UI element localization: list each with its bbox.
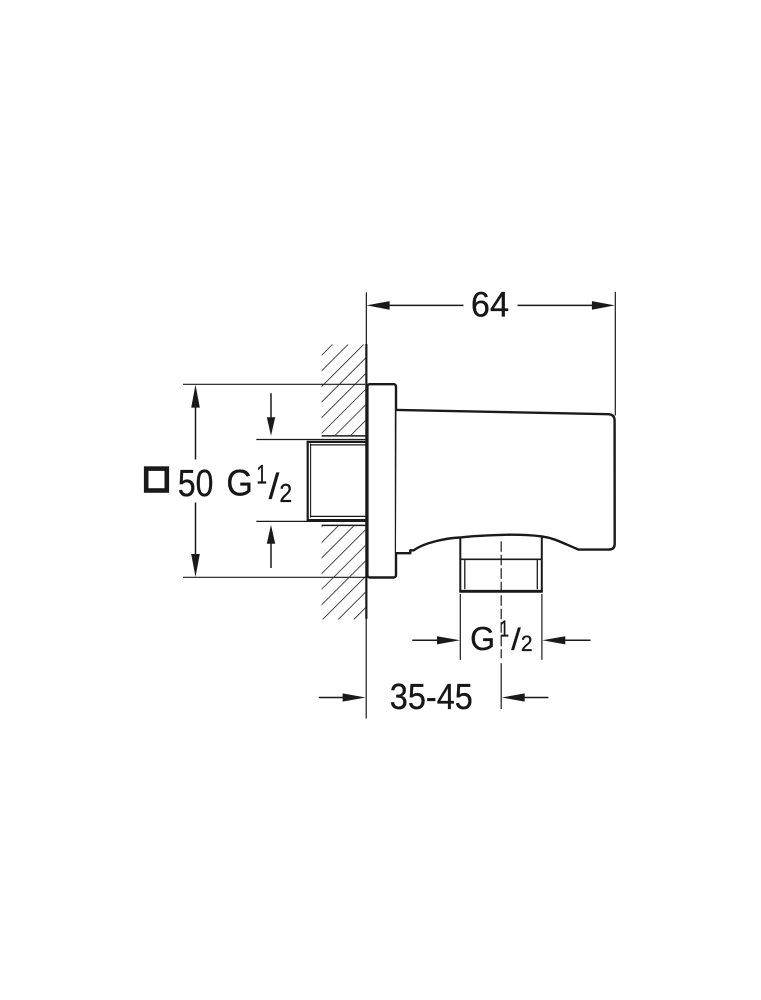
inlet OD arrow upper shaft bbox=[270, 393, 272, 419]
outlet thread root right bbox=[536, 559, 538, 589]
inlet pipe thread root bottom bbox=[310, 515, 366, 517]
dim G1/2 outlet extension right bbox=[541, 594, 543, 660]
svg-text:2: 2 bbox=[279, 480, 292, 508]
wall hatching upper band bbox=[322, 345, 366, 436]
svg-text:1: 1 bbox=[256, 459, 267, 489]
outlet thread shoulder bbox=[460, 558, 542, 560]
flange bbox=[367, 384, 396, 577]
dim 35-45 line left bbox=[319, 697, 344, 699]
inlet OD arrow lower head bbox=[267, 525, 275, 544]
dim G1/2 outlet line left bbox=[412, 639, 438, 641]
dim 35-45 arrowhead right bbox=[502, 693, 525, 701]
wall face line bbox=[365, 344, 367, 619]
dim 50 line lower segment bbox=[195, 503, 197, 556]
svg-text:2: 2 bbox=[521, 630, 533, 656]
dim 64 line right segment bbox=[518, 304, 594, 306]
dim G1/2 outlet arrowhead left bbox=[437, 636, 460, 644]
svg-text:G: G bbox=[470, 620, 495, 657]
dim 50 extension line bottom bbox=[183, 576, 366, 578]
svg-text:64: 64 bbox=[471, 286, 509, 324]
wall hole top edge bbox=[322, 435, 367, 437]
outlet pipe left edge bbox=[459, 537, 461, 592]
inlet pipe thread extension line bottom bbox=[256, 520, 366, 522]
dim 64 arrowhead right bbox=[592, 301, 615, 310]
svg-text:1: 1 bbox=[500, 616, 509, 642]
inlet pipe end cap bbox=[307, 441, 309, 521]
outlet thread root left bbox=[464, 559, 466, 589]
wall hatching lower band bbox=[322, 526, 366, 619]
dim G1/2 outlet arrowhead right bbox=[542, 636, 565, 644]
dim 64 extension line left bbox=[365, 292, 367, 344]
dim 64 line left segment bbox=[388, 304, 464, 306]
dim 50 line upper segment bbox=[195, 406, 197, 460]
inlet pipe thread runout bbox=[310, 444, 312, 518]
svg-text:/: / bbox=[269, 465, 280, 506]
centerline dashed bbox=[500, 541, 502, 658]
dim 50 arrowhead top bbox=[191, 385, 200, 408]
dim 35-45 wall extension bbox=[365, 619, 367, 719]
outlet pipe bottom bbox=[459, 590, 543, 593]
svg-text:50: 50 bbox=[178, 462, 214, 504]
inlet OD arrow upper head bbox=[267, 417, 275, 436]
outlet pipe right edge bbox=[541, 536, 543, 592]
inlet pipe thread root top bbox=[310, 444, 366, 446]
dim 50 arrowhead bottom bbox=[191, 554, 200, 577]
inlet pipe OD top bbox=[307, 441, 367, 443]
wall hole bottom edge bbox=[322, 524, 367, 526]
dim G1/2 outlet line right bbox=[565, 639, 591, 641]
centerline extension solid bbox=[500, 663, 502, 709]
dim 35-45 arrowhead left bbox=[343, 693, 366, 701]
square symbol bbox=[146, 469, 167, 491]
svg-text:G: G bbox=[226, 462, 253, 504]
svg-text:35-45: 35-45 bbox=[390, 677, 473, 717]
dim 50 extension line top bbox=[183, 383, 365, 385]
dim 35-45 line right bbox=[524, 697, 548, 699]
inlet pipe thread extension line top bbox=[256, 439, 366, 441]
dim G1/2 outlet extension left bbox=[459, 594, 461, 660]
body outline bbox=[396, 410, 615, 553]
inlet pipe OD bottom bbox=[307, 519, 367, 521]
inlet OD arrow lower shaft bbox=[270, 543, 272, 568]
dim 64 extension line right bbox=[614, 292, 616, 416]
dim 64 arrowhead left bbox=[367, 301, 390, 310]
